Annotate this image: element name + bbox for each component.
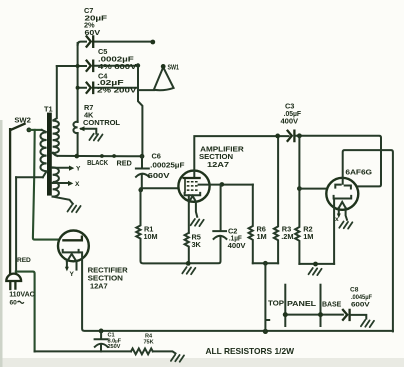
- plug prong right: [14, 282, 16, 289]
- node: dot on TOP|PANEL bar: [283, 312, 288, 317]
- wire: R2 bottom segment to eye cathode: [299, 263, 334, 265]
- wire: R6/R3 bottom segment: [253, 262, 278, 264]
- ground amp filament: [191, 219, 204, 226]
- resistor R3: [274, 136, 278, 263]
- node: junction R2 / eye grid: [297, 186, 302, 191]
- wire: SW1 base to cap bus: [138, 89, 154, 91]
- node: junction bus / mid vertical: [263, 329, 268, 334]
- rectifier plate bar: [63, 237, 82, 241]
- node: junction R2 bottom ground: [313, 262, 318, 267]
- svg-text:Y: Y: [76, 165, 81, 172]
- wire: eye filament leg to ground: [346, 208, 347, 220]
- svg-text:RED: RED: [17, 257, 31, 264]
- svg-text:Y: Y: [70, 271, 75, 278]
- wire: C8 to ground: [350, 315, 367, 319]
- T1 filament winding: [53, 167, 59, 196]
- wire: eye target lead up and loop to bus: [343, 150, 393, 331]
- wire: amp filament leg to ground: [196, 202, 197, 217]
- wire: eye cathode lead down: [333, 199, 335, 264]
- amp grid side bar: [184, 179, 186, 194]
- svg-text:3K: 3K: [192, 240, 202, 249]
- svg-text:C8: C8: [350, 286, 359, 293]
- wire: neutral jog to bottom bus: [16, 272, 35, 352]
- wire: C5 row from T1 secondary top: [57, 65, 137, 67]
- wire: bus below R7: [77, 133, 79, 156]
- svg-text:75K: 75K: [144, 339, 154, 345]
- svg-text:600V: 600V: [351, 302, 370, 309]
- wire: grid wire to amplifier tube: [141, 187, 179, 189]
- node: junction C3 right / R2: [297, 133, 302, 138]
- amp cathode cup: [185, 193, 201, 195]
- wire: C4 row: [78, 87, 138, 89]
- eye filament: [339, 202, 346, 208]
- rectifier cathode cup: [63, 250, 79, 253]
- node: junction R5 / C2 / ground: [186, 261, 191, 266]
- wire: plug right lead vertical: [15, 177, 17, 272]
- wire: T1 primary bottom to plug-right lead: [16, 176, 43, 178]
- node: SW2 contact dot: [27, 127, 32, 132]
- wire: line-hot vertical to rectifier plate: [33, 130, 59, 240]
- wire: mid vertical from R6 junction to bus: [264, 263, 266, 331]
- wire: rectifier filament leg right: [76, 262, 78, 270]
- node: X tap arrow: [68, 181, 73, 186]
- svg-text:TOP: TOP: [268, 298, 284, 307]
- capacitor C5: [87, 61, 94, 71]
- ground R7 wiper: [89, 134, 102, 141]
- resistor R4: [131, 349, 153, 355]
- scan edge left strip: [0, 120, 3, 367]
- svg-text:4% 600V: 4% 600V: [98, 62, 137, 71]
- wire: AC plug left lead up to SW2 pole: [9, 129, 11, 273]
- node: junction bus / C1: [99, 329, 104, 334]
- wire: T1 filament winding bottom to ground: [53, 197, 73, 204]
- node: junction bottom mid vertical: [263, 261, 268, 266]
- wire: tap Y of T1: [53, 167, 70, 169]
- wire: eye filament leg X: [338, 208, 340, 214]
- wire: left bus from C7 down to BLACK/RED rail: [77, 43, 79, 122]
- svg-text:BASE: BASE: [322, 299, 341, 308]
- wire: rectifier filament leg Y: [66, 262, 68, 267]
- wire: bottom line-side bus: [35, 350, 131, 352]
- ground eye filament: [339, 222, 352, 229]
- node: dot on PANEL|BASE bar: [318, 312, 323, 317]
- wire: BLACK/RED heater rail: [53, 153, 143, 157]
- wire: R7 wiper arm: [81, 129, 96, 134]
- eye cathode cup: [334, 196, 352, 199]
- svg-text:.0045µF: .0045µF: [351, 294, 372, 301]
- amp plate bar: [184, 177, 200, 179]
- node: junction bus / C4 row: [76, 86, 80, 90]
- ground R4: [171, 355, 184, 362]
- svg-text:600V: 600V: [148, 171, 170, 180]
- wire: amp screen lead to R6: [199, 184, 253, 186]
- plug prong left: [9, 282, 11, 289]
- svg-text:x: x: [335, 216, 339, 223]
- T1 primary winding: [40, 130, 46, 177]
- resistor R6: [249, 185, 253, 264]
- node: Y tap arrow: [69, 166, 74, 171]
- svg-text:12A7: 12A7: [90, 282, 108, 291]
- ground R2 node: [309, 268, 322, 275]
- scan background tint bottom band: [0, 358, 404, 367]
- svg-text:.2M: .2M: [281, 232, 293, 241]
- capacitor C7: [87, 36, 94, 46]
- node: Y arrow rectifier filament: [65, 267, 69, 272]
- ground C8: [361, 320, 374, 327]
- rectifier tube envelope (12A7 rectifier section): [58, 231, 89, 262]
- node: R7 wiper arrowhead: [79, 126, 85, 131]
- svg-text:250V: 250V: [108, 344, 121, 350]
- node: red lead dot: [112, 154, 116, 158]
- capacitor C6: [136, 156, 149, 188]
- capacitor C4: [87, 83, 94, 93]
- node: junction bus / C5 row: [76, 64, 80, 68]
- node: X arrow eye filament: [337, 214, 341, 219]
- wire: amp plate lead up and over to C3: [194, 136, 288, 178]
- ground T1: [68, 205, 81, 212]
- panel separator PANEL|BASE: [320, 285, 322, 326]
- svg-text:1M: 1M: [257, 232, 267, 241]
- svg-text:6AF6G: 6AF6G: [345, 167, 372, 176]
- svg-text:BLACK: BLACK: [87, 158, 109, 167]
- wire: amp cathode leg to R5: [188, 195, 190, 233]
- svg-text:C6: C6: [152, 152, 161, 161]
- wire: vertical from C5/C4/SW1 node down to C6: [138, 66, 142, 157]
- node: black lead dot: [100, 154, 104, 158]
- ground R5 node: [182, 267, 195, 274]
- svg-text:ALL RESISTORS 1/2W: ALL RESISTORS 1/2W: [206, 347, 295, 356]
- wire: stub on mid vertical: [266, 319, 269, 321]
- switch SW2 blade: [11, 124, 24, 130]
- op-amp: amplifier triode envelope (12A7 amp section): [178, 171, 209, 202]
- svg-text:PANEL: PANEL: [287, 299, 317, 308]
- node: junction bus / rail: [75, 154, 80, 159]
- svg-text:X: X: [75, 181, 80, 188]
- amp filament: [189, 196, 196, 202]
- wire: tap X of T1: [53, 182, 69, 184]
- panel separator TOP|PANEL: [284, 285, 286, 326]
- amp grid dashes: [187, 182, 198, 190]
- svg-text:1M: 1M: [303, 232, 313, 241]
- AC plug 110VAC: [6, 274, 21, 281]
- transformer T1 core: [47, 113, 52, 196]
- T1 secondary upper winding: [53, 66, 59, 156]
- eye target right plate: [345, 186, 351, 189]
- wire: eye grid wire: [299, 188, 326, 190]
- rectifier filament: [67, 254, 77, 262]
- svg-text:60: 60: [10, 300, 18, 307]
- wire: C8 run through panel: [285, 314, 343, 316]
- node: dot C5 row right end: [136, 63, 140, 67]
- svg-text:60V: 60V: [85, 28, 101, 37]
- capacitor C1: [95, 331, 108, 352]
- svg-text:SW2: SW2: [14, 116, 30, 125]
- svg-text:CONTROL: CONTROL: [83, 118, 121, 127]
- node: junction C3 left / R3: [275, 134, 280, 139]
- wire: SW2 contact to T1 primary top: [29, 129, 42, 131]
- svg-text:10M: 10M: [144, 232, 158, 241]
- wire: plate rail / C2 junction down: [220, 182, 225, 187]
- eye target left plate: [335, 185, 340, 188]
- node: junction C6 / R1 / grid: [138, 188, 143, 193]
- wire: rectifier cathode lead to bus: [79, 252, 393, 331]
- resistor R1: [136, 189, 188, 263]
- resistor R5: [185, 233, 189, 264]
- svg-text:110VAC: 110VAC: [9, 290, 35, 299]
- node: dot at SW1 upper contact: [150, 40, 155, 45]
- svg-text:RED: RED: [117, 159, 133, 168]
- capacitor C2: [188, 184, 226, 263]
- svg-text:400V: 400V: [228, 241, 246, 250]
- rheostat R7 element: [73, 122, 77, 134]
- svg-text:400V: 400V: [281, 117, 299, 126]
- wire: R4 to ground: [153, 351, 176, 353]
- node: junction rail / C6: [140, 154, 145, 159]
- resistor R2: [295, 136, 299, 264]
- capacitor C8: [343, 310, 350, 320]
- svg-text:12A7: 12A7: [207, 160, 229, 169]
- node: SW1 apex dot: [161, 64, 166, 69]
- capacitor C3: [288, 131, 295, 141]
- switch SW1 triangle: [154, 67, 174, 90]
- svg-text:2% 200V: 2% 200V: [97, 85, 136, 94]
- svg-text:T1: T1: [44, 105, 53, 114]
- transistor: 6AF6G electron-ray tube envelope: [326, 178, 358, 210]
- svg-text:.00025µF: .00025µF: [150, 160, 185, 169]
- wire: C7 top row: [78, 42, 152, 45]
- svg-text:SW1: SW1: [168, 63, 180, 72]
- wire: C3 right to eye plate loop: [294, 136, 381, 187]
